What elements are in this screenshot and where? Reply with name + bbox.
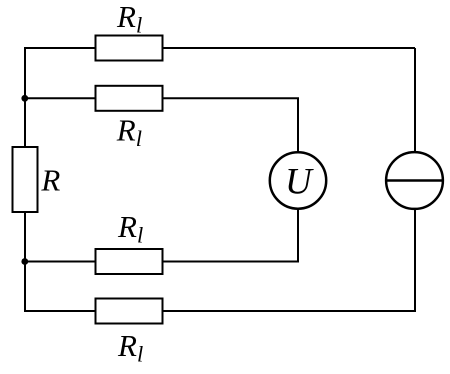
wire top horizontal <box>25 47 415 49</box>
svg-text:R: R <box>40 162 60 197</box>
svg-text:U: U <box>285 162 314 203</box>
wire bottom horizontal <box>25 310 416 312</box>
node junction dot lower <box>21 258 28 265</box>
wire third horizontal from voltmeter <box>25 180 298 262</box>
resistor R_l bottom box <box>96 299 163 324</box>
resistor R_l top box <box>96 36 163 61</box>
resistor R vertical box <box>13 147 38 212</box>
current source circle <box>386 152 443 209</box>
wire left vertical <box>24 47 26 312</box>
voltmeter U circle <box>270 152 326 208</box>
node junction dot upper <box>21 95 28 102</box>
resistor R_l third box <box>96 249 163 274</box>
resistor R_l second box <box>96 86 163 111</box>
current source horizontal bar <box>386 179 443 182</box>
wire second horizontal to voltmeter <box>25 98 298 180</box>
wire right vertical <box>414 48 416 311</box>
